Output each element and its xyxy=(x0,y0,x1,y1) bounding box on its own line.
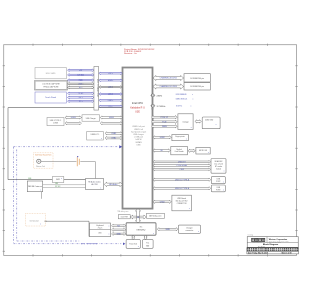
svg-text:USB charger: USB charger xyxy=(133,133,144,136)
svg-text:USB 3.0 TYPE A: USB 3.0 TYPE A xyxy=(175,187,190,190)
svg-text:USB Charger: USB Charger xyxy=(86,117,96,120)
svg-text:eDP: eDP xyxy=(79,70,82,72)
svg-text:CHANNEL B DDR4: CHANNEL B DDR4 xyxy=(160,85,178,88)
svg-text:TP SPI: TP SPI xyxy=(78,93,84,95)
svg-text:Revision : -1a: Revision : -1a xyxy=(124,53,138,55)
svg-text:XCRTC: XCRTC xyxy=(176,106,183,108)
svg-text:INT x: INT x xyxy=(79,97,83,99)
svg-text:USB3: USB3 xyxy=(111,133,116,135)
svg-text:KB9328Q: KB9328Q xyxy=(137,230,146,232)
svg-text:LAN W: LAN W xyxy=(136,138,142,141)
svg-text:SMB: SMB xyxy=(116,234,121,236)
svg-text:INT SPK: INT SPK xyxy=(55,186,60,188)
svg-text:Charger: Charger xyxy=(186,227,193,229)
svg-text:storage: storage xyxy=(182,120,188,123)
svg-text:Intel CPU: Intel CPU xyxy=(132,101,143,105)
svg-text:WIFI Board: WIFI Board xyxy=(177,197,186,200)
svg-text:HD Audio: HD Audio xyxy=(109,183,117,186)
svg-text:BL x: BL x xyxy=(79,87,82,89)
svg-text:module: module xyxy=(216,168,221,170)
svg-text:USB3.0 x4 port: USB3.0 x4 port xyxy=(132,125,145,128)
svg-text:Kabylake R U: Kabylake R U xyxy=(130,106,145,109)
svg-text:I2C x: I2C x xyxy=(79,101,83,103)
svg-text:USB2: USB2 xyxy=(160,137,165,139)
svg-text:USB 3 TYPE C: USB 3 TYPE C xyxy=(50,120,62,122)
svg-text:PCIE X2: PCIE X2 xyxy=(161,117,168,119)
svg-text:FHD(1) CAPTURE: FHD(1) CAPTURE xyxy=(44,86,60,89)
svg-text:connector: connector xyxy=(185,229,193,232)
svg-text:Taipei Hsien 221, Taiwan: Taipei Hsien 221, Taiwan xyxy=(269,241,281,243)
svg-text:TPM debug conn: TPM debug conn xyxy=(117,211,129,213)
svg-text:PORT: PORT xyxy=(216,181,220,183)
svg-text:SODIMM 260 pin: SODIMM 260 pin xyxy=(190,78,204,80)
svg-text:CNVI: CNVI xyxy=(180,169,185,171)
svg-text:Fan: Fan xyxy=(146,242,149,244)
svg-text:U3E: U3E xyxy=(135,111,140,114)
svg-text:DDI0 x: DDI0 x xyxy=(108,87,113,89)
svg-text:802.11ac+BT M.2: 802.11ac+BT M.2 xyxy=(176,201,188,203)
svg-text:MICRO SD: MICRO SD xyxy=(199,150,208,152)
svg-text:USB 3.0 TYPE A: USB 3.0 TYPE A xyxy=(175,178,190,181)
svg-text:HDMI x: HDMI x xyxy=(108,80,114,82)
svg-text:De Dwg: De Dwg xyxy=(248,235,254,237)
svg-text:SATA: SATA xyxy=(162,125,167,128)
svg-text:2280 SSD: 2280 SSD xyxy=(205,119,214,121)
svg-text:USB3: USB3 xyxy=(109,117,114,119)
svg-text:/Touch: /Touch xyxy=(98,227,103,229)
svg-text:EDU SMID: EDU SMID xyxy=(46,73,56,75)
svg-text:x USB port: x USB port xyxy=(134,136,144,139)
svg-text:PCIE WLAN: PCIE WLAN xyxy=(177,164,188,167)
svg-text:CONNECTOR: CONNECTOR xyxy=(177,203,188,205)
svg-text:USB2 x: USB2 x xyxy=(108,100,114,102)
svg-text:DDI1 x: DDI1 x xyxy=(108,94,113,96)
svg-text:USB: USB xyxy=(217,179,220,181)
svg-text:Wistron Corporation: Wistron Corporation xyxy=(269,238,288,241)
svg-text:EDP CONNECTOR: EDP CONNECTOR xyxy=(96,79,98,98)
svg-text:PORT: PORT xyxy=(216,189,220,191)
svg-text:CHANNEL A DDR4: CHANNEL A DDR4 xyxy=(160,77,178,80)
svg-text:LCD EDID CAPTURE: LCD EDID CAPTURE xyxy=(42,83,60,86)
svg-text:SMB: SMB xyxy=(28,178,31,180)
svg-text:BT combo: BT combo xyxy=(215,166,222,168)
svg-text:DMIC MODUL: DMIC MODUL xyxy=(176,98,188,100)
svg-text:Card Reader: Card Reader xyxy=(175,151,185,153)
svg-text:SMB: SMB xyxy=(166,229,171,231)
svg-text:CONN: CONN xyxy=(53,123,59,125)
svg-text:PCIE: PCIE xyxy=(162,122,167,124)
svg-text:WWAN: WWAN xyxy=(135,141,142,144)
svg-text:USB2: USB2 xyxy=(160,202,165,204)
svg-text:LVDS x: LVDS x xyxy=(78,83,83,85)
svg-text:eDP x: eDP x xyxy=(108,73,113,75)
svg-text:Def second: Def second xyxy=(30,221,39,223)
svg-text:USB2 BT: USB2 BT xyxy=(178,162,187,164)
svg-text:ALC298: ALC298 xyxy=(91,183,97,186)
svg-text:WIN DE Center xx: WIN DE Center xx xyxy=(28,185,42,188)
svg-text:11ac all and: 11ac all and xyxy=(214,164,223,166)
svg-text:DDR SMBUS: DDR SMBUS xyxy=(176,94,188,96)
svg-text:Touch Panel: Touch Panel xyxy=(45,97,57,99)
svg-text:32.768KHz: 32.768KHz xyxy=(157,106,166,108)
svg-text:Keyboard: Keyboard xyxy=(96,224,103,227)
svg-text:USB3: USB3 xyxy=(71,117,76,119)
svg-text:USB3.0 TL: USB3.0 TL xyxy=(91,134,100,136)
svg-text:SODIMM 260 pin: SODIMM 260 pin xyxy=(190,86,204,88)
svg-text:USB: USB xyxy=(217,187,220,189)
svg-text:Block Diagram: Block Diagram xyxy=(263,244,278,246)
svg-text:24MHz: 24MHz xyxy=(157,95,163,97)
svg-text:Top Speed x4 port: Top Speed x4 port xyxy=(131,130,147,133)
svg-text:USB2: USB2 xyxy=(111,138,116,140)
